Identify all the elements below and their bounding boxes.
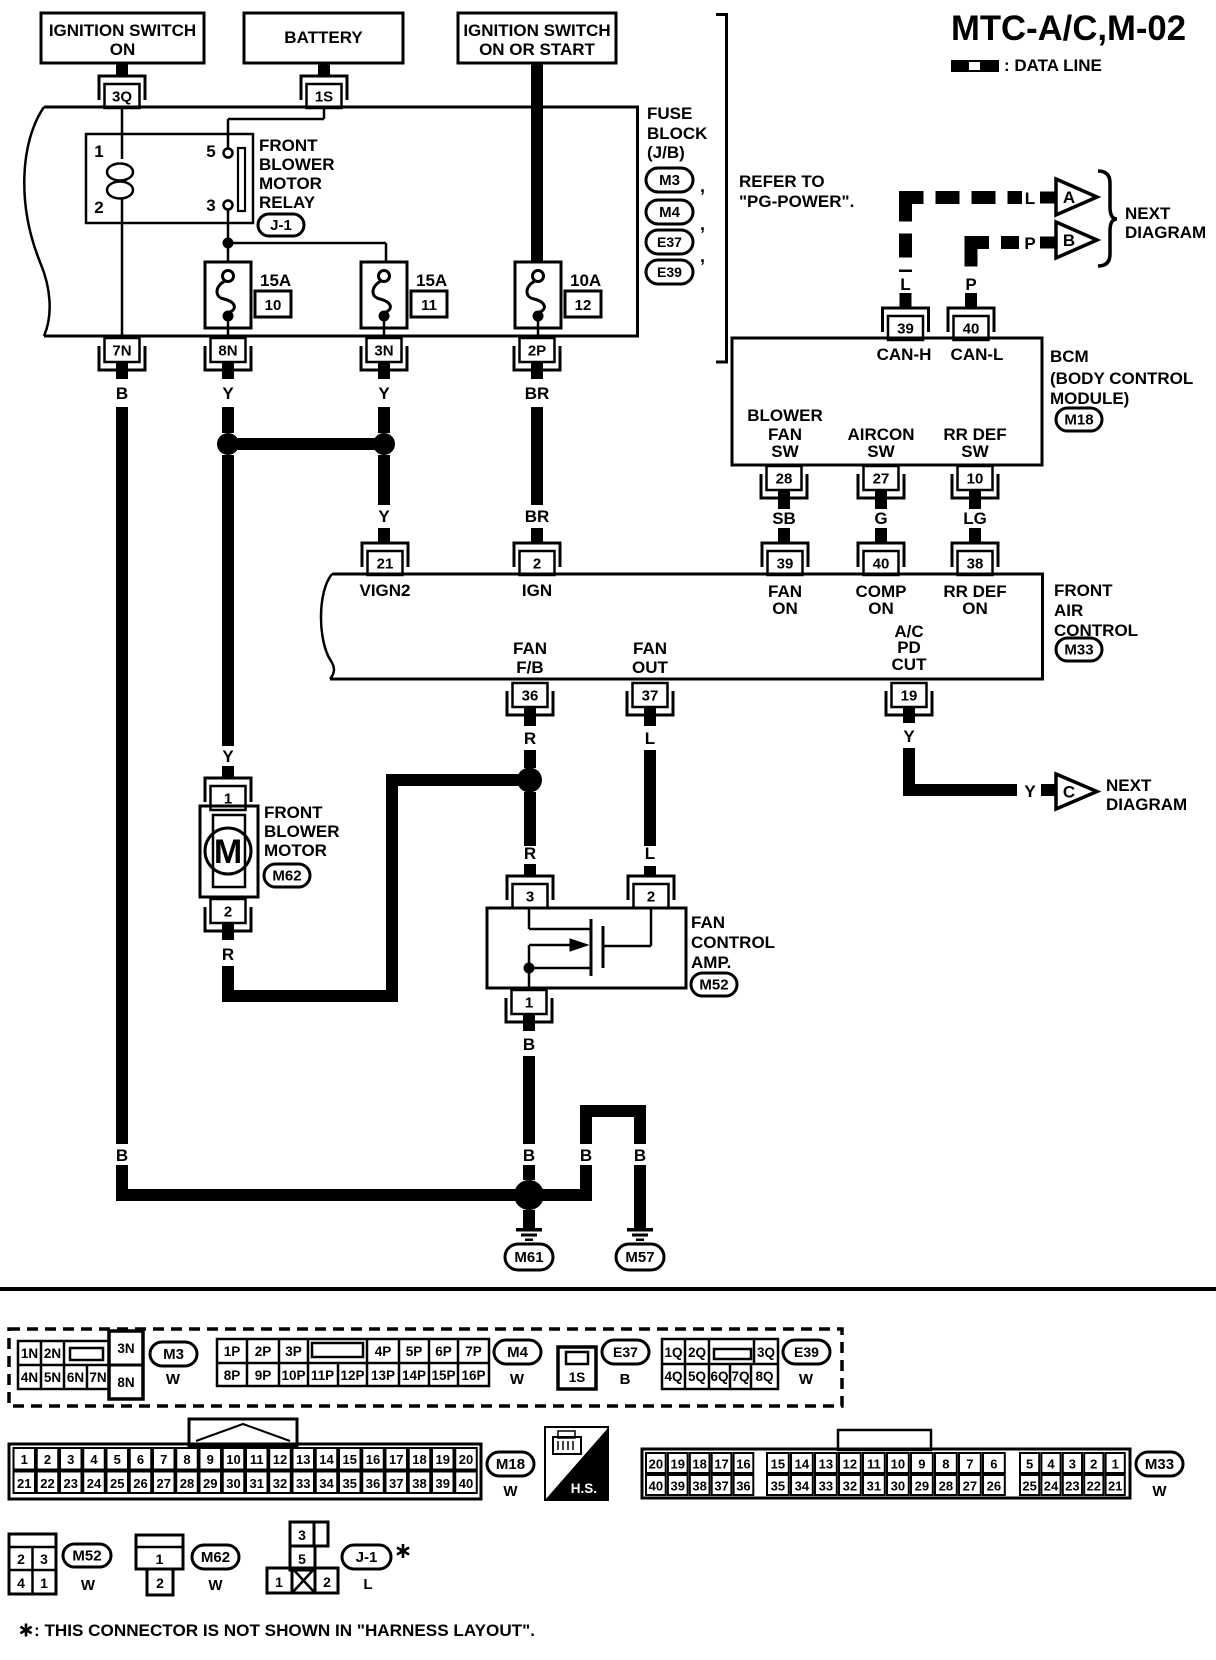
svg-text:M62: M62 [272,868,301,885]
svg-text:1S: 1S [569,1370,586,1385]
svg-text:15: 15 [771,1457,785,1472]
svg-text:19: 19 [671,1457,685,1472]
svg-text:8: 8 [183,1452,190,1467]
svg-text:R: R [222,945,234,964]
svg-text:10A: 10A [570,271,601,290]
svg-text:1: 1 [525,995,533,1012]
svg-text:B: B [116,384,128,403]
svg-text:40: 40 [649,1479,663,1494]
svg-text:6N: 6N [67,1370,84,1385]
svg-text:2: 2 [17,1551,25,1567]
svg-text:AIR: AIR [1054,601,1083,620]
svg-text:4N: 4N [21,1370,38,1385]
svg-text:12: 12 [273,1452,287,1467]
svg-text:20: 20 [459,1452,473,1467]
svg-text:14: 14 [795,1457,810,1472]
svg-text:SW: SW [867,442,895,461]
svg-text:11: 11 [421,297,437,314]
svg-text:36: 36 [366,1476,380,1491]
svg-text:MOTOR: MOTOR [259,174,322,193]
svg-text:IGN: IGN [522,581,552,600]
svg-text:7P: 7P [465,1344,482,1359]
svg-text:27: 27 [157,1476,171,1491]
svg-text:B: B [580,1146,592,1165]
svg-text:39: 39 [671,1479,685,1494]
svg-text:28: 28 [939,1479,953,1494]
svg-text:35: 35 [771,1479,785,1494]
svg-text:10: 10 [891,1457,905,1472]
svg-text:8P: 8P [224,1368,241,1383]
svg-text:FAN: FAN [691,913,725,932]
svg-text:36: 36 [522,688,539,705]
svg-text:MODULE): MODULE) [1050,389,1129,408]
svg-text:33: 33 [819,1479,833,1494]
svg-text:37: 37 [642,688,659,705]
svg-text:VIGN2: VIGN2 [359,581,410,600]
svg-text:2: 2 [224,904,232,921]
svg-text:CAN-H: CAN-H [877,345,932,364]
svg-text:W: W [208,1577,223,1594]
svg-text:2: 2 [44,1452,51,1467]
svg-text:3: 3 [40,1551,48,1567]
svg-text:DIAGRAM: DIAGRAM [1125,223,1206,242]
svg-text:15A: 15A [416,271,447,290]
svg-text:26: 26 [133,1476,147,1491]
svg-text:,: , [700,176,705,196]
svg-text:39: 39 [777,556,794,573]
svg-text:F/B: F/B [516,658,543,677]
svg-text:32: 32 [843,1479,857,1494]
svg-text:34: 34 [319,1476,334,1491]
svg-text:10: 10 [226,1452,240,1467]
svg-text:11P: 11P [311,1368,334,1383]
svg-text:CAN-L: CAN-L [951,345,1004,364]
svg-text:28: 28 [776,471,793,488]
svg-text:E39: E39 [657,264,682,280]
svg-text:1: 1 [94,142,103,161]
svg-text:L: L [363,1576,372,1593]
svg-text:5: 5 [114,1452,121,1467]
svg-text:7N: 7N [89,1370,106,1385]
svg-text:E37: E37 [657,234,682,250]
svg-text:"PG-POWER".: "PG-POWER". [739,192,854,211]
svg-text:B: B [523,1035,535,1054]
svg-text:24: 24 [1044,1479,1059,1494]
svg-text:CUT: CUT [892,655,928,674]
svg-text:27: 27 [963,1479,977,1494]
svg-text:: DATA LINE: : DATA LINE [1004,56,1102,75]
svg-text:6: 6 [990,1457,997,1472]
svg-text:BLOWER: BLOWER [747,406,823,425]
svg-text:5: 5 [1026,1457,1033,1472]
svg-text:W: W [81,1577,96,1594]
svg-text:NEXT: NEXT [1106,776,1152,795]
svg-text:BR: BR [525,507,550,526]
svg-text:3Q: 3Q [757,1345,775,1360]
svg-text:1N: 1N [21,1346,38,1361]
svg-text:BLOWER: BLOWER [259,155,335,174]
svg-text:3: 3 [206,196,215,215]
svg-text:(J/B): (J/B) [647,143,685,162]
svg-text:10: 10 [967,471,984,488]
svg-text:15A: 15A [260,271,291,290]
svg-text:Y: Y [1024,782,1036,801]
svg-text:3: 3 [526,889,534,906]
svg-text:P: P [965,275,976,294]
svg-text:W: W [510,1371,525,1388]
svg-text:LG: LG [963,509,987,528]
svg-text:3: 3 [1069,1457,1076,1472]
svg-text:M57: M57 [625,1249,654,1266]
svg-text:10: 10 [265,297,282,314]
svg-text:16: 16 [736,1457,750,1472]
svg-text:ON: ON [110,40,136,59]
svg-text:R: R [524,729,536,748]
svg-text:21: 21 [17,1476,31,1491]
svg-text:19: 19 [436,1452,450,1467]
svg-text:L: L [645,844,655,863]
svg-text:ON: ON [868,599,894,618]
svg-text:M4: M4 [659,204,680,221]
svg-text:M33: M33 [1064,642,1093,659]
svg-text:2: 2 [647,889,655,906]
svg-text:27: 27 [873,471,890,488]
svg-text:(BODY CONTROL: (BODY CONTROL [1050,369,1193,388]
svg-text:B: B [116,1146,128,1165]
svg-text:11: 11 [250,1452,264,1467]
svg-text:9: 9 [918,1457,925,1472]
svg-text:B: B [1063,231,1075,250]
svg-text:2Q: 2Q [688,1345,706,1360]
svg-text:C: C [1063,783,1075,802]
svg-text:4: 4 [17,1575,25,1591]
svg-text:25: 25 [1022,1479,1036,1494]
svg-text:7: 7 [966,1457,973,1472]
svg-text:M18: M18 [1064,412,1093,429]
svg-text:1: 1 [21,1452,28,1467]
svg-text:G: G [874,509,887,528]
svg-text:1: 1 [40,1575,48,1591]
svg-text:L: L [1025,189,1035,208]
svg-text:6Q: 6Q [710,1369,728,1384]
svg-text:20: 20 [649,1457,663,1472]
svg-text:4: 4 [1047,1457,1055,1472]
svg-text:38: 38 [412,1476,426,1491]
svg-text:22: 22 [40,1476,54,1491]
svg-text:,: , [700,214,705,234]
svg-text:5N: 5N [44,1370,61,1385]
svg-text:6: 6 [137,1452,144,1467]
svg-text:35: 35 [343,1476,357,1491]
svg-text:BATTERY: BATTERY [284,28,363,47]
svg-text:28: 28 [180,1476,194,1491]
svg-text:39: 39 [436,1476,450,1491]
svg-text:30: 30 [226,1476,240,1491]
svg-text:E39: E39 [794,1344,819,1360]
svg-text:M: M [214,833,242,871]
svg-text:8N: 8N [218,343,237,360]
svg-text:32: 32 [273,1476,287,1491]
svg-text:39: 39 [897,321,914,338]
svg-text:W: W [799,1371,814,1388]
svg-text:40: 40 [873,556,890,573]
svg-text:Y: Y [378,507,390,526]
svg-text:2: 2 [533,556,541,573]
svg-text:2: 2 [94,198,103,217]
svg-text:1S: 1S [315,89,333,106]
svg-text:22: 22 [1087,1479,1101,1494]
svg-text:SW: SW [771,442,799,461]
svg-text:30: 30 [891,1479,905,1494]
svg-text:2: 2 [1090,1457,1097,1472]
svg-text:M3: M3 [163,1346,184,1363]
svg-text:MTC-A/C,M-02: MTC-A/C,M-02 [951,9,1186,48]
svg-text:E37: E37 [613,1344,638,1360]
svg-text:5Q: 5Q [688,1369,706,1384]
svg-text:2: 2 [156,1575,164,1591]
svg-text:4P: 4P [375,1344,392,1359]
svg-text:DIAGRAM: DIAGRAM [1106,795,1187,814]
svg-text:19: 19 [901,688,918,705]
svg-text:W: W [166,1371,181,1388]
svg-text:15: 15 [343,1452,357,1467]
svg-text:ON: ON [962,599,988,618]
svg-text:34: 34 [795,1479,810,1494]
svg-text:29: 29 [915,1479,929,1494]
svg-text:FRONT: FRONT [264,803,323,822]
svg-text:7Q: 7Q [731,1369,749,1384]
svg-text:B: B [523,1146,535,1165]
svg-text:W: W [1152,1483,1167,1500]
svg-text:FAN: FAN [633,639,667,658]
svg-text:NEXT: NEXT [1125,204,1171,223]
svg-text:38: 38 [692,1479,706,1494]
svg-text:BLOCK: BLOCK [647,124,708,143]
svg-text:M33: M33 [1145,1456,1174,1473]
svg-text:8Q: 8Q [755,1369,773,1384]
svg-text:3N: 3N [117,1341,134,1356]
svg-text:17: 17 [389,1452,403,1467]
svg-text:RELAY: RELAY [259,193,316,212]
svg-text:OUT: OUT [632,658,669,677]
svg-text:IGNITION SWITCH: IGNITION SWITCH [463,21,610,40]
svg-text:J-1: J-1 [270,217,292,234]
svg-text:7: 7 [160,1452,167,1467]
svg-text:L: L [645,729,655,748]
svg-text:,: , [700,246,705,266]
svg-text:M4: M4 [507,1344,528,1361]
svg-text:14: 14 [319,1452,334,1467]
svg-text:ON: ON [772,599,798,618]
svg-text:31: 31 [867,1479,881,1494]
svg-text:5P: 5P [406,1344,423,1359]
svg-text:1: 1 [275,1574,283,1590]
svg-text:8: 8 [942,1457,949,1472]
svg-text:36: 36 [736,1479,750,1494]
svg-text:M62: M62 [201,1549,230,1566]
svg-text:R: R [524,844,536,863]
svg-text:2N: 2N [44,1346,61,1361]
svg-text:B: B [634,1146,646,1165]
svg-text:J-1: J-1 [356,1549,378,1566]
svg-text:9P: 9P [255,1368,272,1383]
svg-text:Y: Y [222,747,234,766]
svg-text:37: 37 [389,1476,403,1491]
svg-text:M52: M52 [699,977,728,994]
svg-text:8N: 8N [117,1375,134,1390]
svg-text:6P: 6P [435,1344,452,1359]
svg-text:BR: BR [525,384,550,403]
svg-text:FRONT: FRONT [259,136,318,155]
svg-text:7N: 7N [112,343,131,360]
svg-text:1: 1 [156,1551,164,1567]
svg-text:2P: 2P [255,1344,272,1359]
svg-text:4: 4 [90,1452,98,1467]
svg-text:W: W [503,1483,518,1500]
svg-text:40: 40 [963,321,980,338]
svg-text:M61: M61 [514,1249,543,1266]
svg-text:3Q: 3Q [112,89,132,106]
svg-text:L: L [900,275,910,294]
svg-text:5: 5 [298,1551,306,1567]
svg-text:4Q: 4Q [664,1369,682,1384]
svg-text:15P: 15P [431,1368,455,1383]
svg-text:10P: 10P [281,1368,305,1383]
svg-text:5: 5 [206,142,215,161]
svg-text:Y: Y [222,384,234,403]
svg-text:P: P [1024,234,1035,253]
svg-text:M52: M52 [72,1548,101,1565]
svg-text:1Q: 1Q [664,1345,682,1360]
svg-text:21: 21 [1108,1479,1122,1494]
svg-text:14P: 14P [402,1368,426,1383]
svg-text:CONTROL: CONTROL [691,933,775,952]
svg-text:H.S.: H.S. [571,1481,597,1496]
svg-text:Y: Y [378,384,390,403]
svg-text:17: 17 [714,1457,728,1472]
svg-text:12: 12 [843,1457,857,1472]
svg-text:37: 37 [714,1479,728,1494]
svg-text:23: 23 [64,1476,78,1491]
svg-text:AMP.: AMP. [691,953,731,972]
svg-text:11: 11 [867,1457,881,1472]
svg-text:1P: 1P [224,1344,241,1359]
svg-text:M18: M18 [496,1456,525,1473]
svg-text:40: 40 [459,1476,473,1491]
svg-text:REFER TO: REFER TO [739,172,825,191]
svg-text:2P: 2P [528,343,546,360]
svg-text:SW: SW [961,442,989,461]
svg-text:12P: 12P [340,1368,364,1383]
svg-text:FRONT: FRONT [1054,581,1113,600]
svg-text:29: 29 [203,1476,217,1491]
svg-text:SB: SB [772,509,796,528]
svg-text:: THIS CONNECTOR IS NOT SHOWN: : THIS CONNECTOR IS NOT SHOWN IN "HARNES… [34,1621,535,1640]
svg-text:18: 18 [412,1452,426,1467]
svg-text:13: 13 [819,1457,833,1472]
svg-text:9: 9 [207,1452,214,1467]
svg-text:2: 2 [323,1574,331,1590]
svg-text:IGNITION SWITCH: IGNITION SWITCH [49,21,196,40]
svg-text:38: 38 [967,556,984,573]
svg-text:3: 3 [67,1452,74,1467]
svg-text:13: 13 [296,1452,310,1467]
svg-text:16: 16 [366,1452,380,1467]
svg-text:3: 3 [298,1527,306,1543]
svg-text:13P: 13P [371,1368,395,1383]
svg-text:BLOWER: BLOWER [264,822,340,841]
svg-text:M3: M3 [659,172,680,189]
svg-text:16P: 16P [461,1368,485,1383]
svg-text:3P: 3P [285,1344,302,1359]
svg-text:21: 21 [377,556,394,573]
svg-text:1: 1 [1112,1457,1119,1472]
svg-text:B: B [620,1371,631,1388]
svg-text:FUSE: FUSE [647,104,692,123]
svg-text:MOTOR: MOTOR [264,841,327,860]
svg-text:FAN: FAN [513,639,547,658]
svg-text:12: 12 [575,297,592,314]
svg-text:33: 33 [296,1476,310,1491]
svg-text:Y: Y [903,727,915,746]
svg-text:24: 24 [87,1476,102,1491]
svg-text:3N: 3N [374,343,393,360]
svg-text:23: 23 [1065,1479,1079,1494]
svg-text:25: 25 [110,1476,124,1491]
svg-text:18: 18 [692,1457,706,1472]
svg-text:BCM: BCM [1050,347,1089,366]
svg-text:26: 26 [987,1479,1001,1494]
svg-text:31: 31 [250,1476,264,1491]
svg-text:A: A [1063,188,1075,207]
svg-text:ON OR START: ON OR START [479,40,595,59]
